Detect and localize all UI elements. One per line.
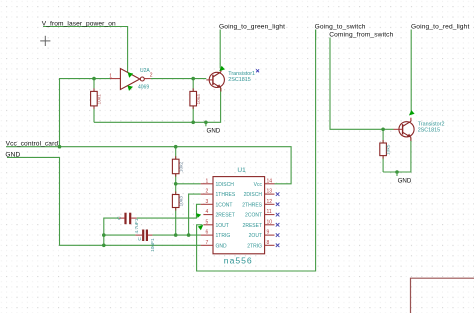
ERC marker Q2 collector — [409, 110, 415, 115]
ERC marker U1 pin5 — [198, 225, 203, 230]
svg-text:14: 14 — [267, 178, 273, 184]
ERC marker Q1 collector — [219, 66, 225, 71]
resistor R 10k5 — [380, 140, 392, 159]
junction pin2 vertical on W2 — [187, 233, 191, 237]
svg-text:10uF1: 10uF1 — [150, 238, 156, 252]
svg-text:2CONT: 2CONT — [245, 213, 262, 219]
svg-text:1OUT: 1OUT — [216, 223, 229, 229]
wire R3 bottom to W2 — [175, 208, 177, 236]
op-amp gate U2A 4069 inverter — [109, 68, 153, 90]
capacitor C1 47uF — [117, 213, 140, 234]
svg-text:2SC1815: 2SC1815 — [418, 127, 440, 133]
origin cross marker — [40, 36, 50, 46]
wire R2 chain from Vcc rail — [175, 147, 177, 160]
wire Vcc_control_card rail — [6, 147, 291, 184]
junction pin1 / R2 R3 — [174, 182, 178, 186]
GND power symbol under gate — [206, 122, 221, 134]
wire gate output to Q1 base — [151, 78, 207, 80]
svg-text:2RESET: 2RESET — [216, 213, 235, 219]
svg-text:10k3: 10k3 — [178, 196, 184, 207]
wire R1 bottom stub — [93, 106, 95, 122]
svg-text:C: C — [137, 237, 143, 241]
U1 pin 1 1DISCH — [201, 178, 235, 188]
U1 pin 7 GND — [201, 240, 227, 250]
svg-text:10k2: 10k2 — [178, 161, 184, 172]
svg-text:Vcc_control_card: Vcc_control_card — [6, 141, 59, 148]
svg-text:GND: GND — [5, 151, 20, 158]
wire gate input from left — [60, 79, 111, 147]
svg-text:GND: GND — [207, 128, 221, 135]
wire pin3 down to W1 — [197, 204, 201, 218]
U1 pin 13 2DISCH — [244, 189, 275, 199]
svg-text:2SC1815: 2SC1815 — [228, 77, 250, 83]
U1 pin 12 2THRES — [242, 199, 274, 209]
wire R5 top stub — [382, 129, 384, 143]
svg-text:1DISCH: 1DISCH — [216, 182, 235, 188]
svg-text:6: 6 — [206, 230, 209, 236]
svg-text:8: 8 — [267, 240, 270, 246]
wire Q2 emitter ground rail — [383, 138, 411, 173]
svg-text:1CONT: 1CONT — [216, 202, 233, 208]
ERC marker gate top input — [128, 72, 134, 78]
capacitor C2 10uF — [135, 230, 156, 252]
junction Q2 base / R5 — [381, 128, 385, 132]
U1 pin 10 2RESET — [243, 219, 275, 229]
svg-text:4.7uF1: 4.7uF1 — [134, 218, 140, 233]
svg-text:4: 4 — [206, 209, 209, 215]
wire pin5 out loop to switch — [197, 30, 316, 272]
wire R5 bottom stub — [382, 156, 384, 172]
wire pin1 to junction — [176, 183, 201, 185]
svg-text:2: 2 — [150, 73, 153, 79]
svg-text:1: 1 — [109, 73, 112, 79]
U1 pin 8 2TRIG — [247, 240, 274, 250]
wire ground rail under gate — [94, 88, 221, 122]
svg-text:10k5: 10k5 — [386, 144, 392, 155]
wire W1 cap C1 rail left part — [104, 218, 119, 245]
svg-text:2RESET: 2RESET — [243, 223, 262, 229]
svg-text:7: 7 — [206, 240, 209, 246]
svg-text:C: C — [117, 216, 123, 220]
transistor Q2 2SC1815 — [394, 118, 415, 141]
wire W2 cap C2 rail left part — [104, 234, 136, 236]
svg-text:10: 10 — [267, 219, 273, 225]
junction gate input / R1 — [92, 77, 96, 81]
junction gate output / R4 — [191, 77, 195, 81]
svg-text:2: 2 — [206, 189, 209, 195]
wire V_from_laser_power_on horizontal — [43, 27, 128, 73]
IC U1 na556 — [213, 167, 265, 265]
wire R1 top stub — [93, 79, 95, 92]
resistor R 10k4 — [190, 88, 202, 109]
ERC marker U1 pin4 — [196, 213, 201, 218]
svg-text:U2A: U2A — [140, 68, 150, 74]
no-connect X markers U1 right pins — [276, 192, 280, 247]
svg-text:Coming_from_switch: Coming_from_switch — [329, 32, 393, 39]
svg-text:U1: U1 — [237, 167, 246, 174]
ERC marker gate bottom edge — [127, 85, 133, 91]
wire W1 cap C1 rail right part — [137, 214, 197, 218]
svg-text:Going_to_red_light: Going_to_red_light — [411, 23, 469, 30]
U1 pin 4 2RESET — [203, 209, 235, 219]
junction GND attach right — [395, 170, 399, 174]
svg-text:5: 5 — [206, 219, 209, 225]
svg-text:10k1: 10k1 — [97, 94, 103, 105]
wire GND label net — [7, 157, 201, 245]
wire R4 bottom stub — [192, 106, 194, 122]
wire Q1 collector to green light label — [219, 30, 221, 69]
junction GND attach under gate — [204, 121, 208, 125]
wire W2 cap C2 rail right part — [152, 234, 200, 236]
U1 pin 2 1THRES — [201, 189, 236, 199]
U1 pin 11 2CONT — [245, 209, 274, 219]
resistor R 10k2 — [172, 156, 184, 176]
svg-text:Going_to_green_light: Going_to_green_light — [219, 23, 285, 30]
U1 pin 3 1CONT — [201, 199, 233, 209]
svg-text:3: 3 — [206, 199, 209, 205]
svg-text:Vcc: Vcc — [254, 182, 263, 188]
svg-text:2OUT: 2OUT — [249, 233, 262, 239]
U1 pin 14 Vcc — [254, 178, 275, 188]
svg-text:4069: 4069 — [138, 84, 149, 90]
svg-text:2TRIG: 2TRIG — [247, 243, 262, 249]
svg-text:2THRES: 2THRES — [242, 202, 262, 208]
svg-text:12: 12 — [267, 199, 273, 205]
U1 pin 9 2OUT — [249, 230, 275, 240]
svg-text:GND: GND — [398, 177, 412, 184]
svg-text:13: 13 — [267, 189, 273, 195]
no-connect X marker near Transistor1 — [256, 69, 259, 72]
wire pin2 down to W2 — [189, 194, 201, 235]
svg-text:10k4: 10k4 — [196, 94, 202, 105]
svg-text:1TRIG: 1TRIG — [216, 233, 231, 239]
junction R4 bottom — [191, 121, 195, 125]
resistor R 10k3 — [172, 192, 184, 211]
svg-text:9: 9 — [267, 230, 270, 236]
wire R2 bottom to pin1 junction — [175, 174, 177, 195]
junction W2 left — [102, 233, 106, 237]
junction GND wire / cap vertical — [102, 244, 106, 248]
U1 pin 6 1TRIG — [201, 230, 231, 240]
wire bottom-right sheet outline — [411, 278, 474, 313]
wire Going_to_switch label stub — [315, 30, 317, 41]
svg-text:GND: GND — [216, 243, 228, 249]
GND power symbol right — [397, 172, 412, 184]
svg-text:1: 1 — [206, 178, 209, 184]
junction R3 bottom on W2 — [174, 233, 178, 237]
wire Q2 collector to red light label — [410, 30, 412, 115]
wire R4 top stub — [192, 79, 194, 92]
junction Vcc rail / R2 — [174, 145, 178, 149]
svg-text:11: 11 — [267, 209, 272, 215]
svg-text:na556: na556 — [224, 256, 253, 266]
U1 pin 5 1OUT — [203, 219, 228, 229]
resistor R 10k1 — [91, 88, 103, 109]
wire Coming_from_switch to Q2 base — [330, 38, 394, 130]
transistor Q1 2SC1815 — [206, 68, 224, 91]
svg-text:1THRES: 1THRES — [216, 192, 236, 198]
svg-text:V_from_laser_power_on: V_from_laser_power_on — [42, 20, 116, 27]
svg-text:Going_to_switch: Going_to_switch — [315, 23, 366, 30]
svg-text:2DISCH: 2DISCH — [244, 192, 263, 198]
junction Vcc label attach — [58, 145, 62, 149]
